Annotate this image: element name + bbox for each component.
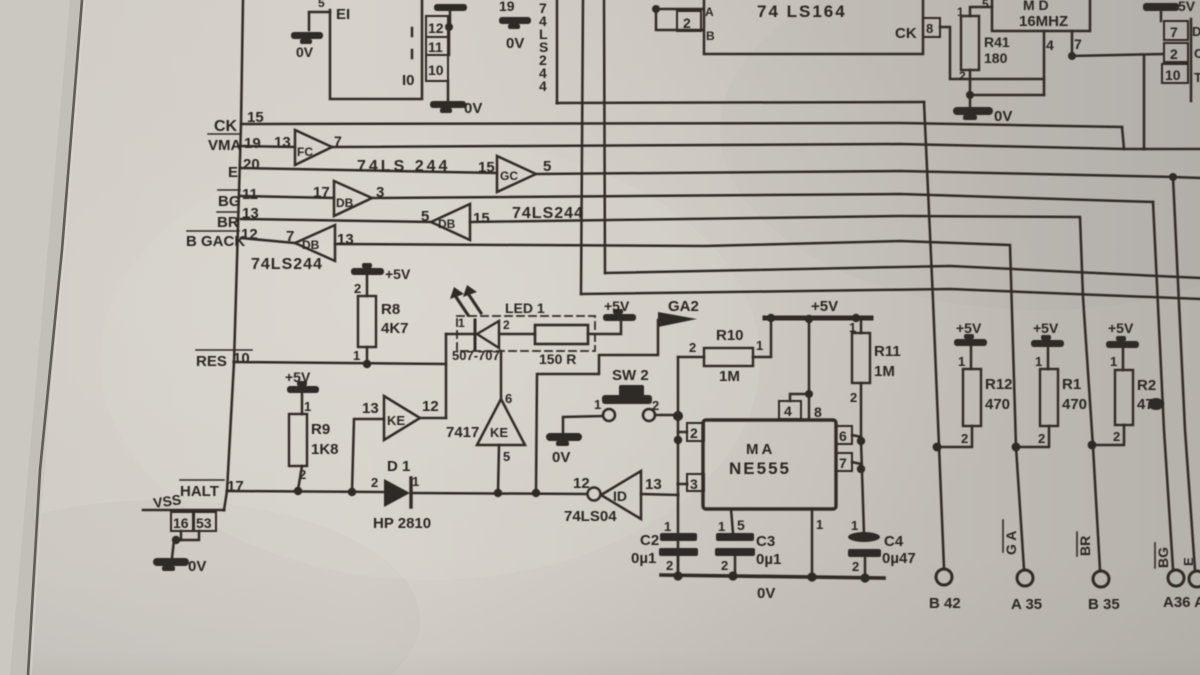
wire R12 to B42 line (941, 426, 972, 447)
junction dot pin7 (857, 465, 865, 473)
svg-text:5: 5 (982, 0, 989, 11)
rotated label BG (1155, 547, 1171, 568)
svg-text:3: 3 (690, 476, 698, 492)
MD pin 4 wire (1043, 31, 1046, 95)
+5V R9 (287, 381, 319, 393)
MD 16MHZ oscillator box (992, 0, 1090, 31)
svg-text:74LS04: 74LS04 (564, 508, 617, 525)
svg-text:17: 17 (313, 184, 330, 201)
svg-text:13: 13 (362, 400, 379, 417)
svg-text:5: 5 (503, 449, 510, 464)
pin box 4 (779, 401, 801, 419)
resistor R8 (358, 296, 376, 347)
buffer DB bgack left-pointing (295, 225, 335, 261)
svg-text:CK: CK (895, 25, 917, 42)
svg-text:8: 8 (814, 404, 822, 420)
svg-text:0µ1: 0µ1 (631, 550, 656, 567)
junction dot rail c3 (728, 571, 737, 580)
stem +5V to pin7 box (1160, 11, 1163, 21)
svg-text:11: 11 (428, 39, 443, 55)
0V rail bottom (661, 575, 884, 578)
resistor R12 (963, 369, 981, 426)
wire C4 bottom (864, 557, 867, 577)
svg-text:B GACK: B GACK (186, 233, 245, 250)
IC 74LS164 box (704, 0, 923, 54)
CK jog right exit (1122, 127, 1200, 149)
buffer GC (497, 156, 536, 192)
wire 555 pin5 (731, 509, 733, 533)
buffer FC (295, 130, 332, 165)
svg-text:NE555: NE555 (729, 459, 791, 478)
junction dot MD pin7 (1068, 52, 1076, 60)
svg-text:53: 53 (196, 515, 212, 531)
R11 stub top (860, 320, 863, 333)
svg-text:1: 1 (458, 316, 465, 330)
junction dot rail c4 (860, 573, 869, 582)
junction dot B35 (1088, 441, 1097, 450)
svg-text:11: 11 (242, 186, 258, 203)
svg-text:DB: DB (336, 196, 354, 210)
svg-text:74LS 244: 74LS 244 (357, 158, 450, 175)
svg-text:1: 1 (353, 348, 360, 363)
junction dot vss (172, 536, 180, 544)
wire R8 bottom (366, 347, 369, 364)
GA2 trace (536, 320, 658, 492)
pin box 10 (426, 55, 448, 81)
svg-text:A36 A: A36 A (1163, 594, 1200, 611)
wire to pin3 (678, 483, 687, 486)
wire R2 to B35 line (1096, 425, 1124, 445)
B42 trace down (924, 102, 944, 568)
svg-text:C3: C3 (756, 533, 775, 550)
wire R41 bottom (969, 70, 972, 95)
74LS164 input dot (652, 5, 660, 13)
+5V rail NE555 (765, 316, 871, 321)
svg-text:B 35: B 35 (1088, 596, 1120, 613)
label VMA overline (208, 133, 240, 135)
node vertical 678 (677, 357, 680, 575)
svg-text:19: 19 (244, 135, 261, 152)
GA2 arrow (658, 312, 697, 327)
svg-text:5: 5 (318, 0, 325, 10)
svg-text:A: A (705, 5, 714, 19)
svg-text:0V: 0V (994, 108, 1012, 125)
svg-text:EI: EI (336, 6, 350, 23)
svg-text:4: 4 (539, 78, 547, 94)
ground bar above pin 12 (434, 4, 467, 11)
wire BG into DB (241, 196, 334, 198)
resistor R41 wire top (970, 7, 992, 16)
svg-text:10: 10 (428, 62, 444, 78)
svg-text:15: 15 (478, 159, 495, 176)
wire pin6 (852, 435, 861, 437)
svg-text:DB: DB (438, 217, 456, 231)
svg-text:0V: 0V (757, 585, 775, 602)
junction dot rail left (767, 314, 775, 322)
svg-text:12: 12 (428, 20, 444, 36)
junction dot E line (1169, 173, 1177, 181)
svg-text:R41: R41 (984, 34, 1010, 50)
svg-text:12: 12 (573, 475, 590, 492)
svg-text:C2: C2 (640, 532, 659, 549)
RES line (234, 362, 446, 364)
wire 555 pin4 jog (790, 394, 809, 401)
svg-text:B 42: B 42 (929, 595, 961, 612)
resistor R41 (961, 16, 979, 70)
terminal circle B42 (936, 569, 952, 585)
bus line CK (241, 123, 1122, 127)
SW2 contact right (643, 409, 655, 421)
terminal circle A36 (1168, 570, 1184, 586)
svg-text:5: 5 (543, 158, 551, 175)
svg-text:2: 2 (652, 398, 659, 413)
svg-text:1: 1 (304, 399, 311, 414)
svg-text:R10: R10 (716, 327, 744, 344)
svg-text:C: C (1194, 46, 1200, 61)
svg-text:VMA: VMA (208, 137, 242, 154)
svg-text:BR: BR (217, 214, 239, 231)
svg-text:20: 20 (243, 156, 260, 173)
junction dot pin12 (445, 23, 453, 31)
pin box 2 (677, 11, 701, 31)
svg-text:2: 2 (354, 281, 361, 296)
junction dot pin6 (857, 437, 865, 445)
wire SW2 left to ground (563, 416, 603, 433)
svg-text:16MHZ: 16MHZ (1019, 13, 1068, 30)
svg-text:0µ1: 0µ1 (756, 551, 781, 568)
svg-text:7: 7 (286, 228, 294, 245)
svg-text:1: 1 (718, 519, 725, 534)
resistor R2 (1115, 370, 1133, 425)
junction dot KE5 (494, 489, 502, 497)
pin box 7 (836, 453, 852, 471)
svg-text:507-707: 507-707 (452, 348, 500, 363)
wire pin10 down to ground (447, 81, 450, 101)
E exit right (1173, 177, 1200, 178)
svg-text:LED 1: LED 1 (505, 300, 545, 316)
A36 trace down (1173, 177, 1195, 570)
junction dot pin2 (674, 436, 682, 444)
inverter ID bubble (588, 488, 601, 501)
pin box 16 (171, 512, 193, 531)
svg-text:C4: C4 (884, 533, 904, 550)
wire R10 right to rail (753, 320, 771, 357)
wire LED to 150R (501, 333, 535, 336)
svg-text:16: 16 (173, 515, 189, 531)
wire R9 top (301, 393, 304, 414)
svg-text:0µ47: 0µ47 (882, 550, 916, 567)
label BR overline (217, 211, 239, 213)
svg-text:+5V: +5V (385, 266, 411, 282)
svg-text:17: 17 (227, 478, 244, 495)
svg-text:FC: FC (297, 145, 313, 159)
svg-text:1: 1 (1035, 354, 1042, 369)
svg-text:T: T (1194, 70, 1200, 85)
bus line VMA (332, 144, 1124, 149)
svg-text:12: 12 (422, 398, 439, 415)
buffer DB bg (334, 181, 372, 216)
HALT line (227, 491, 384, 492)
svg-text:1: 1 (664, 519, 671, 534)
switch SW2 body (602, 385, 652, 404)
svg-text:D: D (1192, 24, 1200, 39)
junction dot R41 ground (966, 91, 974, 99)
LED diode symbol (477, 321, 499, 348)
ground 0V sw2 (546, 433, 582, 446)
svg-text:180: 180 (984, 50, 1008, 66)
vertical text 74LS244 (539, 0, 548, 94)
bus line BG east (372, 194, 1153, 202)
wire dot to MD pin4 (970, 94, 1044, 97)
svg-text:1: 1 (756, 338, 763, 353)
svg-text:0V: 0V (296, 44, 314, 60)
ground 0V left of U-top-left (291, 32, 323, 44)
wire to pin A (656, 8, 703, 11)
wire C2 bottom (677, 556, 680, 575)
ground 0V bottom right of U-top-left (430, 101, 466, 113)
wire pin7 east (1072, 54, 1163, 56)
svg-text:2: 2 (1038, 431, 1045, 446)
wire 555 pin8 (808, 321, 811, 420)
svg-text:HALT: HALT (180, 483, 219, 500)
svg-text:R12: R12 (985, 376, 1013, 393)
terminal circle right edge (1189, 571, 1200, 587)
ground 0V vss (153, 558, 189, 571)
wire BGACK to DB tip (241, 238, 295, 243)
wire into FC (241, 146, 295, 147)
svg-text:5: 5 (737, 517, 745, 533)
svg-text:G A: G A (1003, 531, 1019, 555)
+5V bar top right (1143, 3, 1179, 11)
resistor 150R (535, 325, 588, 344)
stem to ground (172, 540, 174, 558)
svg-text:1: 1 (851, 518, 858, 533)
svg-text:2: 2 (959, 69, 966, 83)
svg-text:1: 1 (958, 354, 965, 369)
svg-text:CK: CK (214, 118, 238, 135)
svg-text:BG: BG (1155, 547, 1171, 568)
wire R11 bottom (860, 383, 863, 441)
svg-text:2: 2 (683, 15, 691, 31)
svg-text:470: 470 (1062, 396, 1087, 413)
left page edge area (0, 0, 82, 675)
pin box 53 (194, 512, 216, 531)
+5V bar led (603, 309, 636, 321)
svg-text:A 35: A 35 (1011, 596, 1042, 613)
capacitor C3 (715, 533, 755, 556)
dashed box LED (457, 316, 595, 351)
vertical to C4 (861, 441, 864, 534)
svg-text:8: 8 (926, 21, 933, 36)
svg-text:R11: R11 (874, 343, 901, 360)
wire R10 left to node (678, 356, 704, 359)
svg-text:KE: KE (490, 425, 508, 440)
wire BR to DB tip (241, 219, 431, 222)
junction dot R9 (294, 487, 302, 495)
junction dot rail c2 (673, 571, 682, 580)
wire LED cathode down to KE apex (500, 351, 503, 399)
wire R9 bottom (298, 466, 302, 490)
buffer KE left (384, 396, 420, 440)
wire CK pin8 jog (940, 27, 1044, 79)
junction dot R8/RES (363, 360, 371, 368)
junction dot rail right (852, 314, 860, 322)
right IC pin box 7 (1164, 21, 1188, 40)
svg-text:E: E (1181, 557, 1196, 566)
ground 0V under R41 (969, 95, 972, 107)
junction dot pin8 (805, 390, 813, 398)
ground bar under pin19 (499, 17, 531, 29)
svg-text:1K8: 1K8 (311, 441, 339, 458)
svg-text:ID: ID (613, 488, 627, 504)
svg-text:1: 1 (594, 397, 601, 412)
svg-text:D 1: D 1 (387, 458, 410, 475)
pin box 12 (426, 16, 448, 37)
bus line E to GC (241, 168, 497, 173)
wire pin12 to pin11 side (448, 27, 451, 55)
vertical from top 605 (604, 0, 605, 273)
capacitor C4 (848, 532, 881, 557)
junction dot GA2 (532, 489, 540, 497)
svg-text:2: 2 (666, 558, 673, 573)
rotated label GA (1003, 531, 1019, 555)
svg-text:2: 2 (1113, 429, 1120, 444)
resistor R1 (1040, 369, 1058, 426)
right IC pin box 2 (1164, 43, 1188, 62)
svg-text:0V: 0V (464, 100, 482, 117)
svg-text:0V: 0V (552, 449, 570, 466)
svg-text:2: 2 (961, 431, 968, 446)
svg-text:R1: R1 (1062, 376, 1081, 393)
svg-text:5V: 5V (1178, 0, 1196, 14)
svg-text:1: 1 (412, 474, 419, 489)
inverter ID triangle (601, 471, 641, 519)
wire to pin B (656, 9, 703, 30)
terminal circle B35 (1093, 571, 1109, 587)
label RES overline (196, 349, 252, 351)
LED emission arrows (456, 295, 481, 315)
svg-text:KE: KE (387, 413, 405, 428)
svg-text:0V: 0V (506, 35, 524, 52)
wire 150R to +5V (588, 321, 621, 334)
bus line BR east (470, 216, 1100, 570)
label BGACK overline (187, 230, 239, 232)
IC NE555 box (703, 420, 836, 509)
svg-text:0V: 0V (188, 558, 206, 575)
wire VSS (143, 509, 224, 512)
svg-text:2: 2 (371, 475, 378, 490)
main cpu vertical (224, 0, 243, 510)
junction dot KE13 (348, 488, 356, 496)
vertical RES corner to LED (445, 334, 448, 418)
svg-text:13: 13 (337, 231, 354, 248)
svg-text:1: 1 (816, 517, 823, 532)
wire to left ground (309, 12, 330, 30)
svg-text:7417: 7417 (446, 424, 479, 441)
svg-text:R9: R9 (311, 421, 330, 438)
KE buffer 13-12 input corner (352, 419, 384, 492)
svg-text:1: 1 (1110, 354, 1117, 369)
svg-text:+5V: +5V (956, 320, 982, 336)
pin box 6 (836, 426, 852, 444)
HALT line after D1 (411, 493, 587, 494)
svg-text:10: 10 (1165, 67, 1181, 83)
svg-text:B: B (706, 29, 715, 43)
svg-text:7: 7 (1074, 36, 1082, 52)
svg-text:DB: DB (302, 238, 320, 252)
svg-text:1M: 1M (719, 368, 740, 385)
SW2 contact left (603, 409, 615, 421)
svg-text:2: 2 (721, 558, 728, 573)
wire right of 74LS244 (556, 0, 559, 103)
rotated label BR (1077, 536, 1093, 556)
svg-text:5: 5 (421, 208, 429, 225)
resistor R9 (289, 414, 307, 466)
svg-text:19: 19 (499, 0, 515, 14)
wire R1 to A35 line (1019, 426, 1049, 447)
bus line L8 (605, 266, 1200, 278)
svg-text:MA: MA (746, 441, 775, 458)
smudge on R2 value (1148, 398, 1164, 410)
svg-text:RES: RES (196, 353, 227, 370)
svg-text:E: E (228, 164, 238, 181)
svg-text:1M: 1M (874, 363, 895, 380)
right IC box edge (1190, 19, 1193, 101)
label HALT overline (180, 479, 224, 481)
buffer KE up-pointing (477, 399, 525, 445)
pin box 2 (687, 423, 704, 441)
svg-text:2: 2 (690, 425, 698, 441)
bus line E east (536, 171, 1173, 177)
svg-text:BG: BG (218, 193, 241, 210)
svg-text:SW 2: SW 2 (612, 367, 649, 384)
label BG overline (218, 189, 240, 191)
svg-text:74LS244: 74LS244 (251, 256, 323, 273)
junction dot A35 (1012, 443, 1021, 452)
right IC pin box 10 (1162, 64, 1188, 83)
pin box 11 (426, 37, 448, 55)
svg-text:+5V: +5V (1108, 320, 1134, 336)
svg-text:150 R: 150 R (539, 351, 576, 367)
wire KE base down to HALT (498, 445, 499, 493)
wire pin7 (852, 462, 861, 464)
bus line L9 (581, 289, 1200, 299)
+5V R8 (351, 263, 384, 275)
IC U-top-left box (330, 0, 422, 99)
rotated label E (1181, 557, 1196, 566)
bus line BGACK east (335, 241, 1024, 569)
diode D1 (384, 479, 410, 507)
fold line (28, 0, 82, 675)
resistor R10 (704, 348, 753, 366)
svg-text:+5V: +5V (604, 298, 630, 314)
MD pin 7 wire (1071, 31, 1074, 56)
svg-text:2: 2 (852, 559, 859, 574)
capacitor C2 (659, 533, 698, 556)
stem to dot (449, 11, 452, 24)
svg-text:2: 2 (689, 340, 696, 355)
svg-text:I0: I0 (402, 72, 415, 89)
junction dot B42 (933, 443, 942, 452)
BG corner down (1153, 202, 1173, 569)
svg-text:74 LS164: 74 LS164 (757, 2, 847, 21)
svg-text:74LS244: 74LS244 (512, 205, 584, 222)
svg-text:2: 2 (850, 390, 857, 405)
svg-text:4: 4 (784, 403, 792, 419)
svg-text:7: 7 (839, 455, 847, 471)
svg-text:470: 470 (985, 396, 1010, 413)
junction dot rail mid (805, 315, 813, 323)
